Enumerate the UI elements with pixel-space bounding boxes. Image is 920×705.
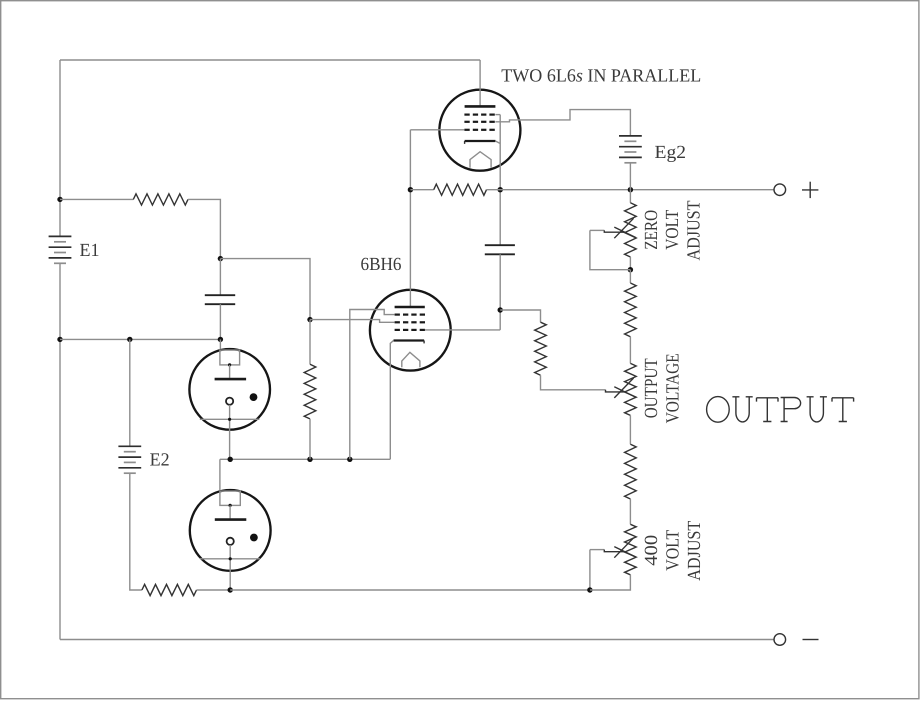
wire 6BH6 grid3 to rail3 bbox=[350, 310, 395, 460]
svg-text:ZERO: ZERO bbox=[642, 210, 662, 250]
capacitor C2 bbox=[485, 244, 515, 246]
wire 6BH6 grid1 to node C bbox=[425, 329, 500, 331]
terminal - circle bbox=[774, 634, 786, 646]
potentiometer P3 bbox=[625, 524, 637, 575]
battery Eg2 bbox=[619, 135, 642, 137]
VR2 cathode pin bbox=[229, 545, 231, 590]
battery E2 bbox=[118, 445, 141, 447]
resistor R2 bbox=[625, 283, 637, 337]
wire Eg2 bottom lead bbox=[629, 163, 631, 190]
svg-text:E2: E2 bbox=[150, 450, 170, 470]
wire 6L6 cathode step bbox=[495, 141, 500, 144]
wire rail1 to corner bbox=[188, 199, 220, 258]
wire pot3 bottom lead bbox=[590, 575, 631, 590]
VR tube V1 envelope bbox=[189, 349, 270, 430]
resistor R4 bbox=[434, 184, 487, 195]
wire 6L6 grid1 left bbox=[410, 129, 464, 131]
wire node-A to 6BH6 column bbox=[220, 259, 310, 320]
VR2 base junction dot bbox=[229, 557, 232, 560]
6BH6 grid1 dashes bbox=[395, 329, 400, 331]
resistor R5 bbox=[535, 322, 547, 375]
VR1 cathode pin bbox=[229, 405, 231, 460]
VR1 cathode ball bbox=[226, 398, 233, 405]
VR1 grid box dot bbox=[228, 363, 231, 366]
wire rail3 bbox=[220, 458, 390, 460]
VR1 base junction dot bbox=[228, 418, 231, 421]
6BH6 plate bbox=[395, 306, 425, 309]
wire 6L6 grid3 to cathode column bbox=[495, 114, 500, 116]
VR2 gas dot bbox=[250, 534, 258, 542]
wire top horizontal bbox=[60, 59, 480, 61]
wire R5 to pot2 wiper bbox=[541, 375, 606, 390]
wire pot1 wiper bracket bbox=[590, 230, 631, 269]
wire cap C1 bottom lead bbox=[219, 304, 221, 339]
node rail4-VR2 bbox=[228, 587, 233, 592]
potentiometer P1 bbox=[625, 203, 637, 257]
wire R6 to VR2 node bbox=[197, 589, 231, 591]
plus sign bbox=[802, 189, 818, 191]
svg-text:ADJUST: ADJUST bbox=[685, 201, 705, 261]
VR1 grid pin bbox=[229, 365, 231, 378]
wire cap C1 top lead bbox=[219, 259, 221, 296]
tube 6BH6 envelope bbox=[370, 290, 451, 371]
VR1 gas dot bbox=[250, 393, 258, 401]
6L6 grid1 dashes bbox=[464, 129, 469, 131]
resistor R7 bbox=[304, 364, 316, 419]
6BH6 cathode bbox=[394, 339, 425, 341]
VR1 base line bbox=[200, 418, 260, 420]
wire pot2 to R3 bbox=[629, 415, 631, 444]
wire pot1 top lead bbox=[629, 190, 631, 203]
6BH6 cathode right tick bbox=[423, 341, 425, 344]
wire R2 to pot2 bbox=[629, 337, 631, 364]
node rail3-6BH6grid bbox=[347, 457, 352, 462]
wire bottom rail bbox=[60, 639, 774, 641]
potentiometer P2 bbox=[625, 363, 637, 415]
node A bbox=[218, 256, 223, 261]
svg-text:6BH6: 6BH6 bbox=[361, 255, 402, 275]
resistor R3 bbox=[625, 444, 637, 499]
wire R7 bottom lead bbox=[309, 419, 311, 459]
VR2 grid box dot bbox=[229, 504, 232, 507]
node C-rail1b bbox=[498, 187, 503, 192]
wire R2 top lead bbox=[629, 270, 631, 283]
wire 6L6-grid/6BH6-plate column bbox=[409, 130, 411, 307]
6L6 grid2 dashes bbox=[464, 121, 469, 123]
wire 6L6 plate lead bbox=[479, 60, 481, 106]
resistor R1 bbox=[133, 194, 188, 205]
node C2-R5 bbox=[498, 307, 503, 312]
node rail2-VR1 bbox=[218, 337, 223, 342]
pot2 wiper arrow bbox=[606, 390, 625, 392]
wire rail1b stub bbox=[410, 189, 433, 191]
wire left vertical upper bbox=[59, 60, 61, 236]
wire node-C2 to R5 bbox=[500, 310, 540, 322]
svg-text:VOLT: VOLT bbox=[664, 530, 684, 571]
wire R7 top lead bbox=[309, 320, 311, 365]
wire rail1 stub bbox=[60, 198, 133, 200]
wire rail3 corner to VR2 bbox=[219, 459, 221, 491]
node rail1b-plate bbox=[408, 187, 413, 192]
6L6 plate bbox=[465, 105, 496, 108]
node left-rail1 bbox=[57, 197, 62, 202]
VR2 anode plate bbox=[215, 518, 247, 521]
6L6 heater bbox=[470, 152, 491, 168]
VR2 grid box bbox=[220, 491, 240, 505]
6BH6 grid3 dashes bbox=[395, 314, 400, 316]
svg-text:E1: E1 bbox=[80, 241, 100, 261]
wire rail4 bbox=[230, 589, 590, 591]
wire C2 bottom lead bbox=[499, 254, 501, 330]
VR tube V2 envelope bbox=[190, 490, 271, 571]
6L6 cathode left tick bbox=[464, 141, 466, 144]
wire rail2 bbox=[60, 338, 220, 340]
minus sign bbox=[803, 639, 819, 641]
wire rail1b to + terminal bbox=[487, 189, 774, 191]
wire pot3 wiper bracket bbox=[589, 550, 591, 590]
svg-text:VOLTAGE: VOLTAGE bbox=[664, 353, 684, 423]
VR2 grid pin bbox=[229, 505, 231, 518]
6BH6 heater bbox=[402, 352, 420, 367]
wire VR1 top lead bbox=[219, 339, 221, 350]
svg-text:OUTPUT: OUTPUT bbox=[642, 358, 662, 418]
pot1 wiper arrow bbox=[590, 229, 604, 231]
node rail2-E2 bbox=[127, 337, 132, 342]
node rail3-VR1 bbox=[228, 457, 233, 462]
wire pot1 bottom lead bbox=[629, 257, 631, 270]
capacitor C1 bbox=[205, 294, 235, 296]
wire 6L6 grid2 to Eg2 bbox=[495, 110, 630, 136]
VR1 grid box bbox=[220, 350, 240, 365]
wire E2 bottom lead bbox=[130, 473, 142, 590]
VR2 cathode ball bbox=[227, 538, 234, 545]
svg-text:VOLT: VOLT bbox=[663, 210, 683, 250]
resistor R6 bbox=[142, 584, 197, 595]
node rail1b-Eg2 bbox=[628, 187, 633, 192]
node pot3 bracket bbox=[587, 587, 592, 592]
6BH6 grid2 dashes bbox=[395, 321, 400, 323]
svg-text:ADJUST: ADJUST bbox=[685, 521, 705, 581]
terminal + circle bbox=[774, 184, 786, 196]
svg-text:400: 400 bbox=[642, 535, 662, 566]
VR1 anode plate bbox=[215, 378, 247, 381]
6L6 grid3 dashes bbox=[464, 113, 469, 115]
wire 6BH6 grid2 from node B bbox=[310, 320, 395, 323]
6L6 cathode bbox=[465, 140, 496, 142]
node pot1 bottom bbox=[628, 267, 633, 272]
svg-text:TWO 6L6s IN PARALLEL: TWO 6L6s IN PARALLEL bbox=[501, 66, 701, 86]
wire left vertical lower bbox=[59, 263, 61, 639]
label OUTPUT big bbox=[707, 397, 854, 423]
wire E2 top lead bbox=[129, 339, 131, 446]
svg-text:Eg2: Eg2 bbox=[655, 143, 687, 163]
node B bbox=[307, 317, 312, 322]
node left-rail2 bbox=[57, 337, 62, 342]
wire 6BH6 cathode to rail3 bbox=[390, 341, 393, 460]
battery E1 bbox=[49, 235, 72, 237]
pot3 wiper arrow bbox=[590, 549, 604, 551]
node rail3-R7 bbox=[307, 457, 312, 462]
VR2 base line bbox=[200, 558, 260, 560]
tube 6L6 envelope bbox=[439, 90, 520, 171]
wire 6L6 cathode column bbox=[499, 115, 501, 246]
wire R3 to pot3 bbox=[629, 499, 631, 524]
